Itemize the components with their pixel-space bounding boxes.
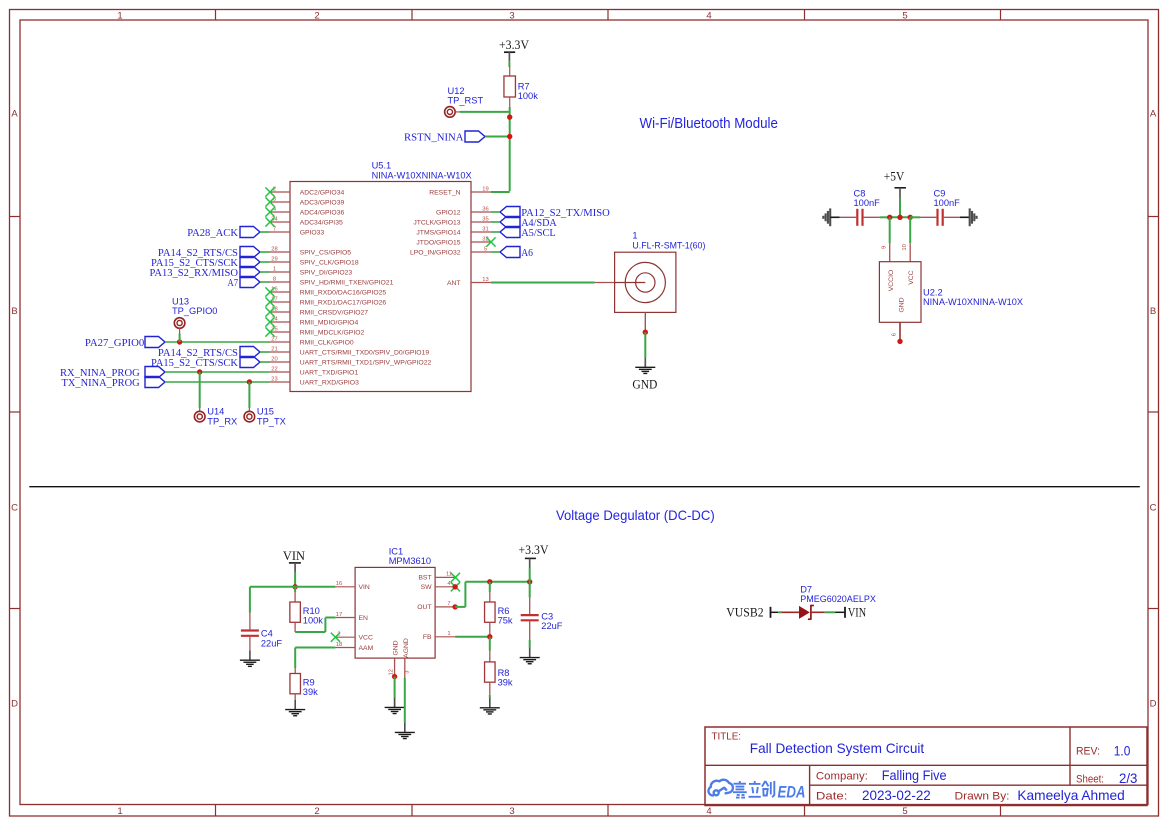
svg-text:13: 13 [482, 277, 488, 283]
svg-text:A6: A6 [521, 247, 533, 259]
svg-text:1.0: 1.0 [1114, 742, 1131, 758]
svg-text:31: 31 [482, 226, 488, 232]
svg-text:SPIV_DI/GPIO23: SPIV_DI/GPIO23 [300, 269, 353, 276]
svg-text:JTCLK/GPIO13: JTCLK/GPIO13 [413, 219, 460, 226]
svg-text:UART_RTS/RMII_TXD1/SPIV_WP/GPI: UART_RTS/RMII_TXD1/SPIV_WP/GPIO22 [300, 359, 432, 366]
svg-text:1: 1 [632, 231, 637, 241]
svg-text:6: 6 [892, 333, 898, 336]
svg-text:100nF: 100nF [854, 198, 881, 208]
svg-text:16: 16 [336, 581, 342, 587]
svg-text:ADC2/GPIO34: ADC2/GPIO34 [300, 189, 345, 196]
svg-text:A: A [11, 108, 18, 119]
svg-text:Wi-Fi/Bluetooth Module: Wi-Fi/Bluetooth Module [640, 115, 778, 132]
svg-text:4: 4 [706, 806, 711, 817]
svg-text:29: 29 [271, 256, 277, 262]
svg-text:3: 3 [509, 10, 514, 21]
svg-text:TP_GPIO0: TP_GPIO0 [172, 306, 217, 316]
svg-text:R10: R10 [303, 606, 320, 616]
svg-text:LPO_IN/GPIO32: LPO_IN/GPIO32 [410, 249, 461, 256]
svg-text:U12: U12 [448, 86, 465, 96]
svg-text:R8: R8 [498, 668, 510, 678]
svg-text:U14: U14 [207, 407, 224, 417]
svg-text:7: 7 [273, 226, 276, 232]
svg-text:2/3: 2/3 [1119, 770, 1138, 786]
svg-text:U2.2: U2.2 [923, 287, 943, 297]
svg-text:+5V: +5V [884, 170, 905, 184]
svg-text:RMII_RXD0/DAC16/GPIO25: RMII_RXD0/DAC16/GPIO25 [300, 289, 387, 296]
svg-text:+3.3V: +3.3V [519, 543, 550, 557]
svg-text:Kameelya Ahmed: Kameelya Ahmed [1017, 787, 1124, 803]
svg-text:1: 1 [273, 266, 276, 272]
svg-text:17: 17 [336, 612, 342, 618]
svg-text:PA27_GPIO0: PA27_GPIO0 [85, 337, 145, 349]
svg-text:GND: GND [632, 378, 657, 392]
svg-text:27: 27 [271, 336, 277, 342]
svg-text:22uF: 22uF [261, 638, 283, 648]
svg-text:22uF: 22uF [541, 621, 563, 631]
svg-text:A: A [1150, 108, 1157, 119]
svg-text:BST: BST [418, 575, 431, 582]
svg-text:PA28_ACK: PA28_ACK [187, 227, 238, 239]
svg-text:22: 22 [271, 366, 277, 372]
svg-text:+3.3V: +3.3V [499, 38, 530, 52]
svg-text:3: 3 [509, 806, 514, 817]
svg-text:RMII_CLK/GPIO0: RMII_CLK/GPIO0 [300, 339, 354, 346]
svg-text:39k: 39k [498, 678, 513, 688]
svg-text:EDA: EDA [778, 784, 806, 802]
svg-text:Sheet:: Sheet: [1076, 773, 1104, 785]
svg-text:AAM: AAM [359, 645, 374, 652]
svg-text:NINA-W10XNINA-W10X: NINA-W10XNINA-W10X [923, 297, 1023, 307]
svg-text:SPIV_CS/GPIO5: SPIV_CS/GPIO5 [300, 249, 352, 256]
svg-text:FB: FB [423, 634, 432, 641]
svg-text:B: B [1150, 306, 1156, 317]
svg-text:5: 5 [484, 246, 487, 252]
svg-text:GPIO12: GPIO12 [436, 209, 461, 216]
svg-text:20: 20 [271, 356, 277, 362]
svg-text:RMII_MDIO/GPIO4: RMII_MDIO/GPIO4 [300, 319, 359, 326]
svg-text:D: D [1150, 699, 1157, 710]
svg-text:UART_CTS/RMII_TXD0/SPIV_D0/GPI: UART_CTS/RMII_TXD0/SPIV_D0/GPIO19 [300, 349, 430, 356]
svg-text:3: 3 [404, 671, 410, 674]
svg-text:18: 18 [336, 642, 342, 648]
svg-text:5: 5 [902, 10, 907, 21]
svg-text:9: 9 [882, 246, 888, 249]
svg-text:NINA-W10XNINA-W10X: NINA-W10XNINA-W10X [372, 170, 472, 180]
svg-text:U15: U15 [257, 407, 274, 417]
svg-text:RESET_N: RESET_N [429, 189, 460, 196]
svg-text:IC1: IC1 [389, 546, 403, 556]
svg-text:TP_RX: TP_RX [207, 417, 237, 427]
svg-text:Falling Five: Falling Five [882, 767, 947, 783]
svg-text:ADC4/GPIO36: ADC4/GPIO36 [300, 209, 345, 216]
svg-text:1: 1 [117, 806, 122, 817]
svg-text:C4: C4 [261, 629, 273, 639]
svg-text:VUSB2: VUSB2 [726, 606, 763, 620]
svg-text:VIN: VIN [283, 549, 305, 563]
svg-text:TP_RST: TP_RST [448, 96, 484, 106]
svg-text:4: 4 [706, 10, 711, 21]
svg-text:EN: EN [359, 615, 369, 622]
svg-text:JTMS/GPIO14: JTMS/GPIO14 [416, 229, 460, 236]
svg-text:D7: D7 [800, 585, 812, 595]
svg-text:10: 10 [902, 244, 908, 250]
svg-text:7: 7 [447, 601, 450, 607]
svg-text:19: 19 [482, 186, 488, 192]
svg-text:UART_RXD/GPIO3: UART_RXD/GPIO3 [300, 379, 359, 386]
svg-text:ADC3/GPIO39: ADC3/GPIO39 [300, 199, 345, 206]
svg-text:8: 8 [273, 276, 276, 282]
svg-text:C: C [11, 503, 18, 514]
svg-text:RMII_MDCLK/GPIO2: RMII_MDCLK/GPIO2 [300, 329, 365, 336]
svg-text:1: 1 [117, 10, 122, 21]
svg-text:PA13_S2_RX/MISO: PA13_S2_RX/MISO [150, 267, 239, 279]
svg-text:Date:: Date: [816, 791, 848, 803]
svg-text:TX_NINA_PROG: TX_NINA_PROG [62, 377, 140, 389]
svg-text:SPIV_CLK/GPIO18: SPIV_CLK/GPIO18 [300, 259, 359, 266]
svg-text:C3: C3 [541, 611, 553, 621]
svg-text:RSTN_NINA: RSTN_NINA [404, 132, 464, 144]
svg-text:SPIV_HD/RMII_TXEN/GPIO21: SPIV_HD/RMII_TXEN/GPIO21 [300, 279, 394, 286]
svg-text:VCC: VCC [359, 635, 373, 642]
svg-text:100k: 100k [518, 91, 539, 101]
svg-text:1: 1 [447, 631, 450, 637]
svg-text:GPIO33: GPIO33 [300, 229, 325, 236]
svg-text:28: 28 [271, 246, 277, 252]
svg-text:TITLE:: TITLE: [712, 732, 742, 743]
svg-text:100k: 100k [303, 616, 324, 626]
svg-text:Company:: Company: [816, 771, 868, 783]
svg-text:PA15_S2_CTS/SCK: PA15_S2_CTS/SCK [151, 357, 238, 369]
svg-text:39k: 39k [303, 687, 318, 697]
svg-text:2023-02-22: 2023-02-22 [862, 787, 931, 803]
svg-text:VIN: VIN [848, 606, 866, 620]
svg-text:U.FL-R-SMT-1(60): U.FL-R-SMT-1(60) [632, 241, 705, 251]
svg-text:TP_TX: TP_TX [257, 417, 286, 427]
svg-text:R9: R9 [303, 677, 315, 687]
svg-text:VCC: VCC [908, 270, 915, 284]
svg-text:C: C [1150, 503, 1157, 514]
svg-text:12: 12 [389, 669, 395, 675]
svg-text:AGND: AGND [403, 638, 410, 658]
svg-text:Drawn By:: Drawn By: [955, 791, 1010, 803]
svg-text:U5.1: U5.1 [372, 160, 392, 170]
svg-text:RMII_RXD1/DAC17/GPIO26: RMII_RXD1/DAC17/GPIO26 [300, 299, 387, 306]
svg-text:GND: GND [898, 297, 905, 312]
svg-text:A7: A7 [228, 277, 239, 289]
svg-text:2: 2 [314, 10, 319, 21]
svg-text:2: 2 [314, 806, 319, 817]
svg-text:UART_TXD/GPIO1: UART_TXD/GPIO1 [300, 369, 359, 376]
svg-text:ANT: ANT [447, 280, 461, 287]
svg-text:VIN: VIN [359, 584, 370, 591]
svg-text:RMII_CRSDV/GPIO27: RMII_CRSDV/GPIO27 [300, 309, 369, 316]
svg-text:GND: GND [393, 640, 400, 655]
svg-text:ADC34/GPI35: ADC34/GPI35 [300, 219, 343, 226]
svg-text:A5/SCL: A5/SCL [521, 227, 556, 239]
svg-text:Fall Detection System Circuit: Fall Detection System Circuit [750, 741, 925, 756]
svg-text:21: 21 [271, 346, 277, 352]
svg-text:R6: R6 [498, 606, 510, 616]
svg-text:75k: 75k [498, 616, 513, 626]
svg-text:VCCIO: VCCIO [888, 270, 895, 292]
svg-text:100nF: 100nF [934, 198, 961, 208]
svg-text:Voltage Degulator (DC-DC): Voltage Degulator (DC-DC) [556, 508, 715, 523]
svg-text:D: D [11, 699, 18, 710]
svg-text:36: 36 [482, 206, 488, 212]
svg-text:5: 5 [902, 806, 907, 817]
svg-text:23: 23 [271, 376, 277, 382]
svg-text:OUT: OUT [417, 604, 431, 611]
svg-text:REV:: REV: [1076, 746, 1100, 758]
svg-text:PMEG6020AELPX: PMEG6020AELPX [800, 594, 876, 604]
svg-text:JTDO/GPIO15: JTDO/GPIO15 [416, 239, 460, 246]
svg-text:SW: SW [421, 584, 433, 591]
svg-text:B: B [11, 306, 17, 317]
svg-text:MPM3610: MPM3610 [389, 556, 431, 566]
svg-text:35: 35 [482, 216, 488, 222]
